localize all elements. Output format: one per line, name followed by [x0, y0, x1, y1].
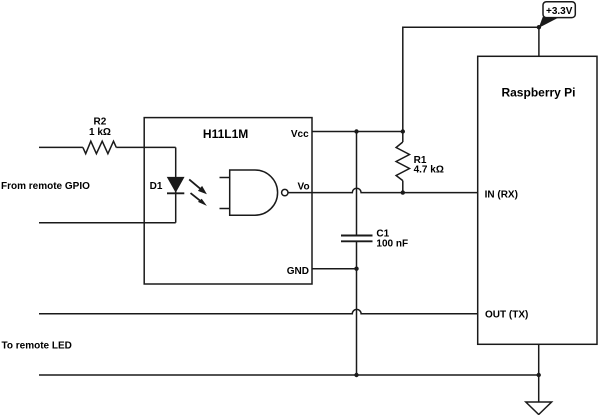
wire: LED return to remote GPIO	[39, 222, 176, 224]
wire: D1 branch vertical	[175, 147, 177, 222]
wire: ground bus bottom	[39, 374, 539, 376]
svg-text:To remote LED: To remote LED	[2, 341, 72, 352]
svg-text:100 nF: 100 nF	[376, 239, 408, 250]
wire: R1 leads	[402, 132, 404, 193]
wire: OUT (TX) to remote LED with hop over C1 net	[39, 309, 478, 313]
svg-text:1 kΩ: 1 kΩ	[89, 127, 111, 138]
light arrow 1	[189, 179, 207, 194]
svg-text:OUT (TX): OUT (TX)	[485, 310, 528, 321]
svg-text:Vcc: Vcc	[291, 129, 309, 140]
wire: Raspberry Pi ground drop	[538, 344, 540, 402]
wire: C1 net vertical top	[356, 132, 358, 236]
resistor R2	[83, 141, 116, 154]
junction: Vcc / R1	[401, 129, 405, 133]
junction: C1 / ground bus	[354, 373, 358, 377]
junction: ground bus / Pi ground drop	[537, 373, 541, 377]
junction: +3.3V rail	[537, 25, 541, 29]
wire: R1 top to +3.3V rail	[403, 27, 539, 131]
svg-text:Raspberry Pi: Raspberry Pi	[501, 86, 575, 100]
resistor R1	[396, 142, 409, 181]
wire: +3.3V drop to Raspberry Pi top	[538, 27, 540, 56]
power symbol +3.3V callout box	[543, 2, 575, 18]
svg-text:D1: D1	[150, 181, 163, 192]
junction: Vcc / C1	[354, 129, 358, 133]
svg-text:From remote GPIO: From remote GPIO	[1, 181, 90, 192]
svg-text:IN (RX): IN (RX)	[485, 189, 518, 200]
junction: GND / C1	[354, 267, 358, 271]
wire: Vcc pin to R1 node	[312, 131, 403, 133]
svg-text:GND: GND	[287, 266, 309, 277]
capacitor C1	[341, 236, 373, 242]
svg-text:4.7 kΩ: 4.7 kΩ	[414, 165, 444, 176]
svg-text:Vo: Vo	[298, 181, 310, 192]
wire: Vo pin to IN (RX) with hop over C1 net	[312, 188, 478, 192]
svg-text:H11L1M: H11L1M	[203, 127, 248, 141]
svg-text:+3.3V: +3.3V	[546, 6, 573, 17]
light arrow 2	[191, 193, 207, 206]
power symbol +3.3V callout wedge	[539, 17, 558, 28]
gate inversion bubble	[282, 189, 288, 195]
ground symbol	[526, 402, 552, 415]
wire: bubble to Vo pin	[288, 192, 312, 194]
gate input stub lower	[220, 208, 230, 210]
gate: detector schmitt gate of U1	[220, 170, 313, 215]
wire: GND pin to C1 net	[312, 268, 357, 270]
svg-text:R2: R2	[94, 116, 107, 127]
LED D1	[167, 177, 184, 193]
wire: R2 to D1 anode	[116, 146, 175, 148]
wire: C1 net vertical bottom	[356, 241, 358, 375]
Raspberry Pi box	[478, 56, 597, 344]
optocoupler U1 box H11L1M	[144, 118, 312, 284]
wire: From remote GPIO lead-in	[39, 146, 83, 148]
gate input stub upper	[220, 177, 230, 179]
junction: Vo / R1	[401, 190, 405, 194]
